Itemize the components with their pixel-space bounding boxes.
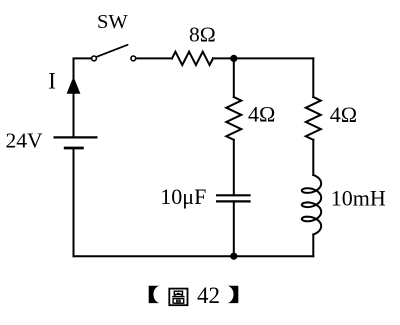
resistor R1 8ohm zigzag — [172, 52, 213, 65]
wire node A to top-right corner — [213, 57, 313, 59]
current arrow I head — [67, 77, 81, 94]
switch SW pole contact — [92, 56, 97, 61]
svg-text:4Ω: 4Ω — [330, 102, 357, 127]
svg-text:10mH: 10mH — [331, 186, 386, 211]
svg-text:SW: SW — [97, 11, 128, 33]
svg-text:4Ω: 4Ω — [248, 102, 275, 127]
switch SW throw contact — [131, 56, 136, 61]
node B junction dot — [230, 253, 237, 260]
switch SW blade — [97, 45, 128, 57]
svg-text:I: I — [48, 69, 56, 94]
capacitor C1 plate bottom — [216, 200, 251, 202]
svg-text:8Ω: 8Ω — [189, 22, 216, 46]
wire bottom rail — [74, 255, 314, 257]
caption right bracket — [227, 286, 238, 303]
svg-text:24V: 24V — [6, 129, 44, 153]
wire node A down to resistor R2 — [233, 58, 235, 97]
wire switch to resistor R1 — [136, 57, 172, 59]
wire top-right corner down to resistor R3 — [312, 58, 314, 97]
resistor R3 4ohm zigzag — [306, 97, 321, 140]
wire capacitor C1 to bottom node B — [233, 201, 235, 256]
svg-text:10μF: 10μF — [160, 184, 206, 209]
caption left bracket — [149, 286, 160, 303]
wire left rail bottom (battery - to bottom-left corner) — [73, 148, 75, 256]
wire resistor R3 to inductor L1 — [312, 140, 314, 175]
wire inductor L1 to bottom-right corner — [312, 235, 314, 257]
wire left rail top (corner to battery +) — [74, 58, 92, 137]
node A junction dot — [230, 55, 237, 62]
battery V1 plate negative — [64, 147, 84, 150]
battery V1 plate positive — [54, 136, 98, 138]
svg-text:42: 42 — [197, 283, 220, 308]
wire resistor R2 to capacitor C1 — [233, 140, 235, 195]
caption figure glyph — [169, 289, 187, 306]
capacitor C1 plate top — [216, 194, 251, 196]
resistor R2 4ohm zigzag — [226, 97, 241, 140]
inductor L1 coil — [302, 175, 321, 235]
